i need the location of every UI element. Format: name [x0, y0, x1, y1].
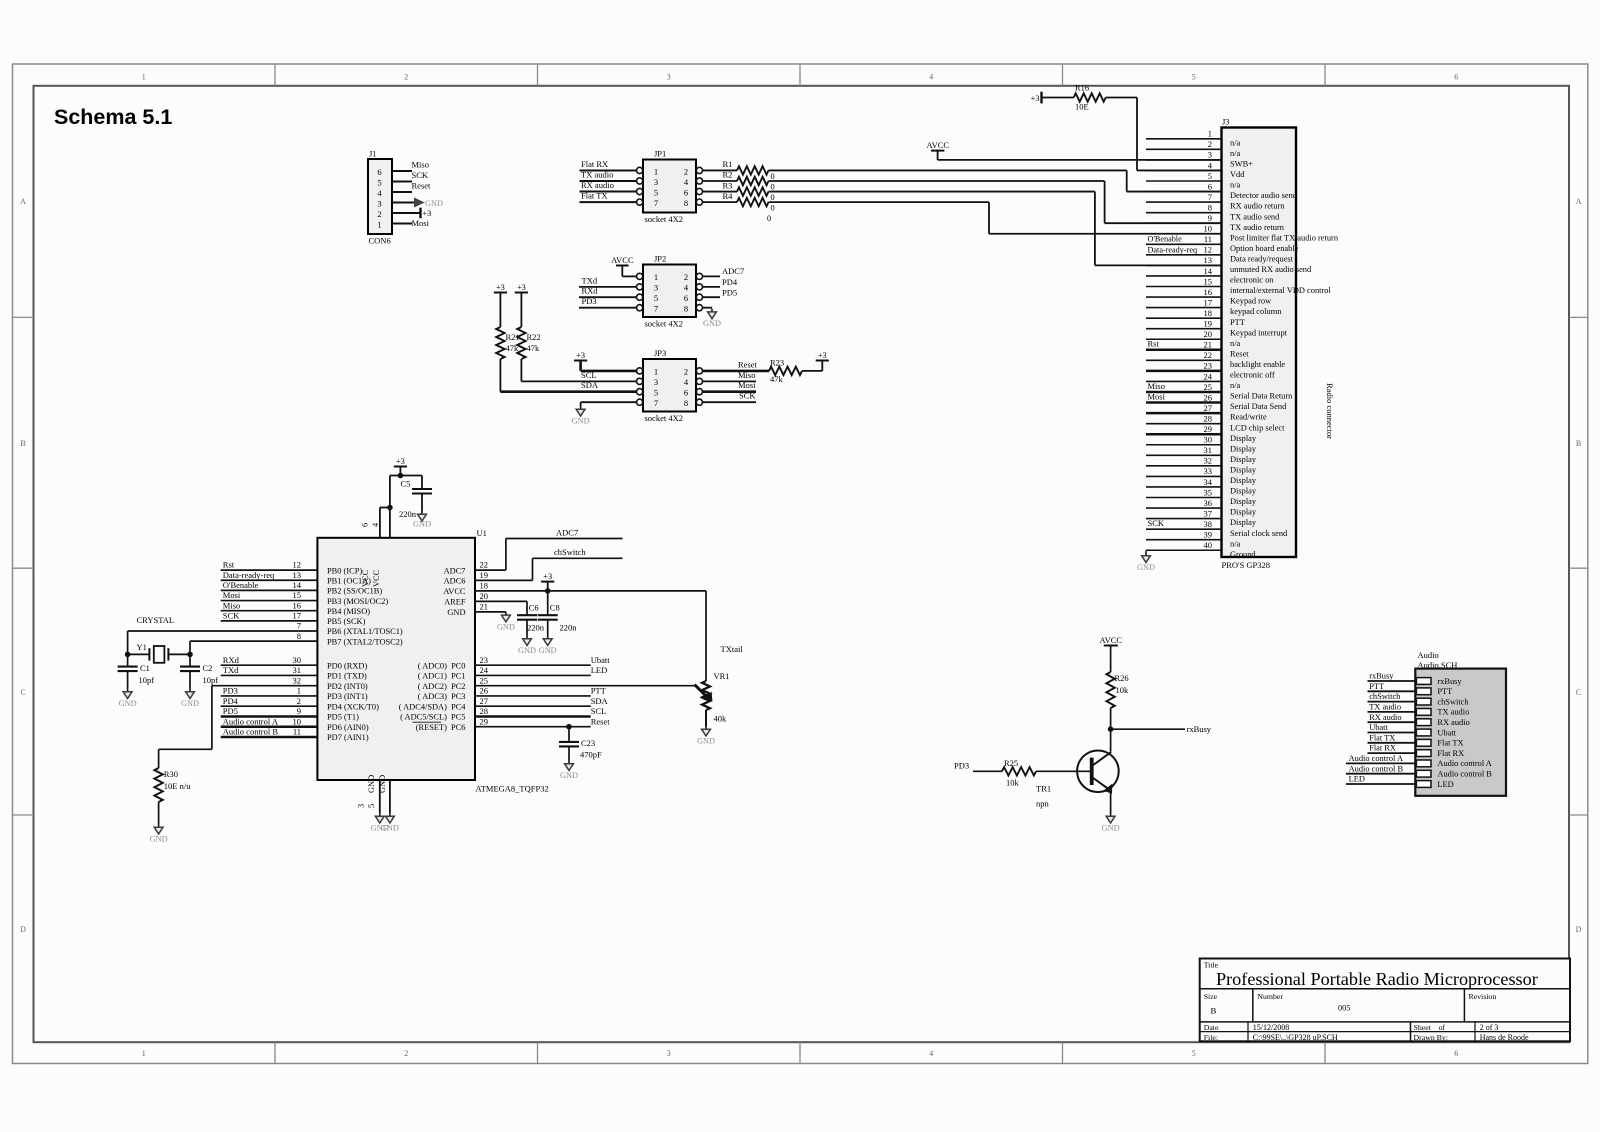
- svg-text:+3: +3: [818, 351, 827, 360]
- svg-text:23: 23: [1204, 361, 1213, 371]
- svg-text:Display: Display: [1230, 476, 1257, 485]
- svg-text:backlight enable: backlight enable: [1230, 360, 1285, 369]
- svg-text:Display: Display: [1230, 465, 1257, 474]
- svg-text:Ubatt: Ubatt: [1437, 728, 1456, 737]
- svg-text:SCL: SCL: [591, 706, 607, 716]
- connector J3 body: [1222, 128, 1297, 558]
- U1 GND pin 3 wire: [379, 780, 381, 813]
- socket JP1 body: [643, 160, 696, 213]
- svg-text:Display: Display: [1230, 434, 1257, 443]
- Audio sheet wires and outside labels: [1368, 680, 1416, 682]
- svg-text:1: 1: [654, 367, 658, 377]
- svg-text:electronic on: electronic on: [1230, 276, 1274, 285]
- JP3 right pin circles: [696, 368, 702, 374]
- svg-text:C1: C1: [140, 663, 150, 673]
- svg-text:PB7 (XTAL2/TOSC2): PB7 (XTAL2/TOSC2): [327, 637, 403, 646]
- resistor R16: [1043, 97, 1074, 99]
- svg-text:RX audio: RX audio: [1437, 718, 1469, 727]
- svg-text:PRO'S GP328: PRO'S GP328: [1222, 560, 1271, 570]
- svg-text:SCK: SCK: [739, 391, 756, 401]
- svg-text:Serial Data Send: Serial Data Send: [1230, 402, 1287, 411]
- power +3 for R16: [1040, 92, 1042, 104]
- svg-text:2: 2: [684, 367, 688, 377]
- svg-text:Radio connector: Radio connector: [1325, 383, 1335, 439]
- wire U1 pin 32 to R30: [212, 685, 318, 687]
- svg-text:C: C: [1576, 688, 1581, 697]
- svg-text:Display: Display: [1230, 508, 1257, 517]
- svg-text:31: 31: [1204, 445, 1213, 455]
- svg-text:GND: GND: [572, 417, 590, 426]
- svg-text:R30: R30: [164, 769, 178, 779]
- wire R23 to +3: [802, 370, 822, 372]
- U1 VCC pin 6 wire: [379, 508, 381, 538]
- svg-text:PD6 (AIN0): PD6 (AIN0): [327, 723, 369, 732]
- svg-text:Reset: Reset: [591, 716, 611, 726]
- svg-text:PB5 (SCK): PB5 (SCK): [327, 617, 366, 626]
- svg-text:7: 7: [1208, 192, 1212, 202]
- sheet symbol Audio body: [1415, 669, 1506, 796]
- svg-text:Audio control B: Audio control B: [1437, 770, 1492, 779]
- power +3 to JP3 pin 1: [574, 360, 587, 362]
- svg-text:Flat TX: Flat TX: [581, 191, 608, 201]
- U1 pin3 ground symbol: [379, 813, 381, 816]
- svg-text:Keypad interrupt: Keypad interrupt: [1230, 328, 1288, 337]
- svg-text:R1: R1: [723, 159, 733, 169]
- svg-text:Reset: Reset: [738, 359, 758, 369]
- ruler column ticks: [274, 64, 276, 86]
- svg-text:Vdd: Vdd: [1230, 170, 1245, 179]
- svg-text:SCL: SCL: [581, 370, 597, 380]
- svg-text:PD3: PD3: [582, 296, 597, 306]
- svg-text:PD3: PD3: [954, 760, 969, 770]
- svg-text:PB4 (MISO): PB4 (MISO): [327, 607, 370, 616]
- svg-text:3: 3: [667, 73, 671, 82]
- svg-text:7: 7: [654, 304, 658, 314]
- socket JP2 body: [643, 265, 696, 318]
- svg-text:R25: R25: [1004, 758, 1018, 768]
- svg-text:Flat RX: Flat RX: [1437, 749, 1464, 758]
- svg-text:22: 22: [1204, 350, 1213, 360]
- JP2 pin 4 wire PD4: [703, 286, 721, 288]
- J3 pin stubs and numbers: [1146, 138, 1222, 140]
- svg-text:31: 31: [293, 665, 302, 675]
- svg-text:15: 15: [1204, 276, 1213, 286]
- svg-text:33: 33: [1204, 466, 1213, 476]
- JP3 pin 2 wire Reset: [703, 370, 770, 373]
- capacitor C5: [412, 488, 432, 490]
- svg-text:internal/external VDD control: internal/external VDD control: [1230, 286, 1331, 295]
- svg-text:LED: LED: [1349, 775, 1365, 784]
- svg-text:n/a: n/a: [1230, 138, 1241, 147]
- svg-text:Flat RX: Flat RX: [581, 159, 608, 169]
- svg-text:5: 5: [654, 187, 658, 197]
- C5 ground: [421, 494, 423, 512]
- svg-text:AVCC: AVCC: [443, 587, 466, 596]
- svg-text:47k: 47k: [770, 374, 784, 384]
- svg-text:3: 3: [357, 804, 366, 808]
- svg-text:n/a: n/a: [1230, 149, 1241, 158]
- JP2 pin 8 wire to ground: [703, 307, 713, 309]
- svg-text:O'Benable: O'Benable: [1148, 235, 1183, 244]
- svg-text:unmuted RX audio send: unmuted RX audio send: [1230, 265, 1312, 274]
- svg-text:Option board enable: Option board enable: [1230, 244, 1299, 253]
- svg-text:17: 17: [293, 610, 302, 620]
- svg-text:Display: Display: [1230, 487, 1257, 496]
- svg-text:Flat TX: Flat TX: [1437, 739, 1463, 748]
- svg-text:Display: Display: [1230, 497, 1257, 506]
- svg-text:13: 13: [293, 570, 302, 580]
- svg-text:PB0 (ICP): PB0 (ICP): [327, 566, 362, 575]
- svg-text:+3: +3: [517, 283, 526, 292]
- JP2 wire RXd: [579, 296, 637, 298]
- svg-text:O'Benable: O'Benable: [223, 580, 259, 590]
- power +3 above U1: [394, 466, 407, 468]
- power +3 for R22: [515, 292, 528, 294]
- svg-text:220n: 220n: [399, 509, 417, 519]
- JP1 wire Flat RX: [580, 169, 637, 171]
- svg-text:220n: 220n: [527, 623, 545, 633]
- svg-text:PTT: PTT: [1369, 682, 1384, 691]
- svg-text:RX audio return: RX audio return: [1230, 202, 1285, 211]
- resistor R22: [520, 293, 522, 328]
- svg-text:6: 6: [377, 167, 381, 177]
- svg-text:4: 4: [929, 73, 933, 82]
- svg-text:14: 14: [293, 580, 302, 590]
- U1 PD pin wires and labels: [221, 664, 318, 666]
- svg-text:PB6 (XTAL1/TOSC1): PB6 (XTAL1/TOSC1): [327, 627, 403, 636]
- resistor R1: [703, 169, 738, 171]
- svg-text:18: 18: [480, 581, 489, 591]
- svg-text:C:\99SE\..\GP328 uP.SCH: C:\99SE\..\GP328 uP.SCH: [1253, 1033, 1338, 1042]
- svg-text:6: 6: [361, 523, 370, 527]
- svg-text:LED: LED: [591, 665, 608, 675]
- svg-text:ADC7: ADC7: [556, 527, 578, 537]
- svg-text:8: 8: [684, 304, 688, 314]
- svg-text:GND: GND: [539, 646, 557, 655]
- svg-text:( ADC5/SCL) PC5: ( ADC5/SCL) PC5: [400, 713, 465, 722]
- resistor R30: [154, 768, 162, 802]
- JP2 pin 6 wire PD5: [703, 296, 721, 298]
- svg-text:Ubatt: Ubatt: [1369, 723, 1388, 732]
- svg-text:Mosi: Mosi: [738, 380, 756, 390]
- power +3 for R21: [494, 292, 507, 294]
- JP2 right pin circles: [696, 273, 702, 279]
- svg-text:TR1: TR1: [1036, 784, 1051, 794]
- svg-text:2: 2: [297, 696, 301, 706]
- svg-text:GND: GND: [119, 699, 137, 708]
- svg-text:TX audio: TX audio: [581, 170, 613, 180]
- svg-text:GND: GND: [447, 608, 465, 617]
- svg-text:10pf: 10pf: [139, 675, 155, 685]
- svg-text:SCK: SCK: [223, 610, 240, 620]
- svg-text:Schema 5.1: Schema 5.1: [54, 105, 172, 129]
- junction rxBusy: [1108, 726, 1114, 732]
- svg-text:C2: C2: [203, 663, 213, 673]
- svg-text:C6: C6: [529, 603, 539, 613]
- svg-text:+3: +3: [1031, 94, 1040, 103]
- svg-text:npn: npn: [1036, 799, 1050, 809]
- svg-text:+3: +3: [576, 351, 585, 360]
- svg-text:TXd: TXd: [582, 275, 598, 285]
- svg-text:SWB+: SWB+: [1230, 160, 1253, 169]
- svg-text:6: 6: [1454, 73, 1458, 82]
- svg-text:10E n/u: 10E n/u: [164, 781, 191, 791]
- U1 GND pin 5 wire: [389, 780, 391, 813]
- svg-text:1: 1: [654, 166, 658, 176]
- svg-text:5: 5: [367, 804, 376, 808]
- svg-text:C5: C5: [401, 479, 411, 489]
- svg-text:10E: 10E: [1075, 102, 1089, 112]
- svg-text:22: 22: [480, 560, 489, 570]
- svg-text:Audio: Audio: [1418, 650, 1439, 660]
- svg-text:ADC7: ADC7: [444, 566, 466, 575]
- svg-text:Audio control A: Audio control A: [1349, 754, 1403, 763]
- svg-text:12: 12: [293, 560, 302, 570]
- JP1 wire TX audio: [580, 180, 637, 182]
- JP1 wire RX audio: [580, 191, 637, 193]
- svg-text:Flat RX: Flat RX: [1369, 744, 1396, 753]
- svg-text:( ADC4/SDA) PC4: ( ADC4/SDA) PC4: [399, 702, 467, 711]
- J1 pin 6 wire: [392, 170, 412, 172]
- svg-text:Y1: Y1: [137, 642, 147, 652]
- svg-text:GND: GND: [425, 199, 443, 208]
- junction +3 C5: [398, 473, 404, 479]
- svg-text:1: 1: [297, 686, 301, 696]
- junction AVCC +3: [545, 588, 551, 594]
- svg-text:R23: R23: [770, 357, 784, 367]
- svg-text:0: 0: [771, 193, 775, 202]
- svg-text:2: 2: [684, 272, 688, 282]
- svg-text:15/12/2008: 15/12/2008: [1253, 1023, 1289, 1032]
- U1 chSwitch wire: [475, 579, 533, 581]
- svg-text:Serial Data Return: Serial Data Return: [1230, 392, 1293, 401]
- svg-text:AVCC: AVCC: [927, 140, 950, 150]
- svg-text:470pF: 470pF: [580, 750, 602, 760]
- svg-text:6: 6: [684, 293, 688, 303]
- svg-text:30: 30: [293, 655, 302, 665]
- svg-text:15: 15: [293, 590, 302, 600]
- svg-text:+3: +3: [423, 209, 432, 218]
- U1 VCC pin 4 wire: [389, 476, 391, 538]
- svg-text:Audio control A: Audio control A: [223, 716, 279, 726]
- resistor R26: [1110, 646, 1112, 673]
- svg-text:29: 29: [1204, 424, 1213, 434]
- svg-text:VCC: VCC: [361, 569, 370, 587]
- svg-text:VCC: VCC: [372, 569, 381, 587]
- svg-text:Miso: Miso: [1148, 381, 1165, 391]
- svg-text:19: 19: [1204, 319, 1213, 329]
- svg-text:U1: U1: [477, 528, 487, 538]
- svg-text:GND: GND: [703, 319, 721, 328]
- svg-text:D: D: [1576, 925, 1582, 934]
- svg-text:32: 32: [293, 675, 302, 685]
- svg-text:16: 16: [1204, 287, 1213, 297]
- svg-text:TX audio send: TX audio send: [1230, 212, 1280, 221]
- svg-text:0: 0: [771, 183, 775, 192]
- svg-text:2: 2: [404, 1049, 408, 1058]
- svg-text:LCD chip select: LCD chip select: [1230, 423, 1285, 432]
- svg-text:10: 10: [293, 716, 302, 726]
- svg-text:2: 2: [404, 73, 408, 82]
- resistor R2: [703, 180, 738, 182]
- JP3 left pin circles: [637, 368, 643, 374]
- svg-text:D: D: [20, 925, 26, 934]
- J1 pin 3 wire: [392, 202, 414, 204]
- svg-text:Ubatt: Ubatt: [591, 655, 611, 665]
- svg-text:14: 14: [1204, 266, 1213, 276]
- JP1 left pin circles: [637, 167, 643, 173]
- svg-text:RX audio: RX audio: [581, 180, 614, 190]
- svg-text:+3: +3: [396, 457, 405, 466]
- svg-text:AVCC: AVCC: [611, 255, 634, 265]
- svg-text:30: 30: [1204, 435, 1213, 445]
- svg-text:Data-ready-req: Data-ready-req: [223, 570, 275, 580]
- svg-text:chSwitch: chSwitch: [554, 547, 586, 557]
- svg-text:26: 26: [1204, 392, 1213, 402]
- svg-text:13: 13: [1204, 255, 1213, 265]
- svg-text:+3: +3: [543, 572, 552, 581]
- wire R3 to J3 pin 13: [769, 191, 1095, 193]
- svg-text:PD0 (RXD): PD0 (RXD): [327, 661, 367, 670]
- resistor R4: [703, 201, 738, 203]
- svg-text:Professional Portable Radio Mi: Professional Portable Radio Microprocess…: [1216, 969, 1538, 989]
- svg-text:PD4 (XCK/T0): PD4 (XCK/T0): [327, 702, 379, 711]
- wire R2 to J3 pin 9: [769, 180, 1105, 182]
- svg-text:10: 10: [1204, 224, 1213, 234]
- junction crystal left: [125, 652, 131, 658]
- svg-text:Drawn By:: Drawn By:: [1414, 1033, 1448, 1042]
- svg-text:GND: GND: [1102, 824, 1120, 833]
- svg-text:8: 8: [297, 631, 301, 641]
- svg-text:n/a: n/a: [1230, 539, 1241, 548]
- svg-text:10pf: 10pf: [203, 675, 219, 685]
- svg-text:TX audio return: TX audio return: [1230, 223, 1285, 232]
- svg-text:C: C: [20, 688, 25, 697]
- svg-text:7: 7: [654, 198, 658, 208]
- junction C23: [566, 724, 572, 730]
- svg-text:24: 24: [1204, 371, 1213, 381]
- svg-text:005: 005: [1338, 1004, 1350, 1013]
- svg-text:ATMEGA8_TQFP32: ATMEGA8_TQFP32: [476, 784, 549, 794]
- svg-text:3: 3: [654, 283, 658, 293]
- svg-text:C8: C8: [550, 603, 560, 613]
- svg-text:TX audio: TX audio: [1369, 703, 1401, 712]
- title block inner lines: [1200, 988, 1570, 990]
- svg-text:CON6: CON6: [369, 236, 391, 246]
- junction VCC: [387, 505, 393, 511]
- svg-text:GND: GND: [181, 699, 199, 708]
- wire R21 to SDA: [499, 359, 501, 392]
- J1 pin 1 wire: [392, 223, 412, 225]
- svg-text:TXtail: TXtail: [721, 644, 744, 654]
- svg-text:Audio control A: Audio control A: [1437, 759, 1491, 768]
- svg-text:6: 6: [684, 187, 688, 197]
- svg-text:Display: Display: [1230, 444, 1257, 453]
- svg-text:n/a: n/a: [1230, 181, 1241, 190]
- svg-text:R4: R4: [723, 191, 734, 201]
- svg-text:8: 8: [684, 198, 688, 208]
- svg-text:PD4: PD4: [223, 696, 239, 706]
- svg-text:32: 32: [1204, 456, 1213, 466]
- svg-text:Read/write: Read/write: [1230, 413, 1267, 422]
- svg-text:socket 4X2: socket 4X2: [645, 214, 683, 224]
- svg-text:Mosi: Mosi: [412, 218, 430, 228]
- svg-text:Mosi: Mosi: [1148, 391, 1166, 401]
- svg-text:J1: J1: [369, 149, 377, 159]
- svg-text:11: 11: [293, 727, 301, 737]
- svg-text:2: 2: [1208, 139, 1212, 149]
- svg-text:( ADC2) PC2: ( ADC2) PC2: [418, 682, 466, 691]
- svg-text:R22: R22: [527, 332, 541, 342]
- svg-text:Display: Display: [1230, 455, 1257, 464]
- svg-text:28: 28: [480, 706, 489, 716]
- svg-text:3: 3: [654, 177, 658, 187]
- svg-text:40: 40: [1204, 540, 1213, 550]
- svg-text:Detector audio send: Detector audio send: [1230, 191, 1298, 200]
- svg-text:PD3 (INT1): PD3 (INT1): [327, 692, 368, 701]
- svg-text:6: 6: [1208, 181, 1212, 191]
- svg-text:220n: 220n: [560, 623, 578, 633]
- svg-text:7: 7: [297, 621, 301, 631]
- wire rxBusy: [1111, 728, 1185, 730]
- wire R26 to collector junction: [1110, 708, 1112, 752]
- power +3 on AVCC line: [541, 581, 554, 583]
- svg-text:+3: +3: [496, 283, 505, 292]
- svg-text:GND: GND: [497, 622, 515, 631]
- U1 GND pin 21 wire: [475, 611, 506, 613]
- svg-text:PTT: PTT: [1437, 687, 1452, 696]
- capacitor C6 on AREF: [526, 601, 528, 615]
- svg-text:47k: 47k: [527, 343, 541, 353]
- U1 AVCC wire to VR1: [475, 590, 706, 592]
- svg-text:( ADC1) PC1: ( ADC1) PC1: [418, 672, 466, 681]
- svg-text:R26: R26: [1115, 673, 1129, 683]
- svg-text:Miso: Miso: [738, 370, 755, 380]
- svg-text:electronic off: electronic off: [1230, 371, 1275, 380]
- svg-text:RX audio: RX audio: [1369, 713, 1401, 722]
- svg-text:VR1: VR1: [714, 671, 730, 681]
- svg-text:PD4: PD4: [722, 277, 738, 287]
- svg-text:19: 19: [480, 570, 489, 580]
- svg-text:( ADC0) PC0: ( ADC0) PC0: [418, 661, 466, 670]
- JP3 pin 8 wire SCK: [703, 401, 757, 403]
- svg-text:GND: GND: [560, 771, 578, 780]
- svg-text:B: B: [1211, 1006, 1217, 1016]
- svg-text:AREF: AREF: [444, 598, 466, 607]
- svg-text:27: 27: [1204, 403, 1213, 413]
- svg-text:GND: GND: [518, 646, 536, 655]
- svg-text:Display: Display: [1230, 518, 1257, 527]
- R30 ground: [158, 802, 160, 824]
- svg-text:CRYSTAL: CRYSTAL: [137, 615, 175, 625]
- svg-text:0: 0: [771, 204, 775, 213]
- connector J1 body: [368, 159, 392, 234]
- TR1 emitter to ground: [1110, 791, 1112, 813]
- wire PD3 to R25: [973, 770, 1002, 772]
- svg-text:Data ready/request: Data ready/request: [1230, 254, 1294, 263]
- J1 pin 2 wire: [392, 212, 421, 214]
- svg-text:Rst: Rst: [223, 560, 235, 570]
- svg-text:25: 25: [1204, 382, 1213, 392]
- svg-text:socket 4X2: socket 4X2: [645, 413, 683, 423]
- JP3 wire SDA: [500, 390, 636, 393]
- svg-text:26: 26: [480, 686, 489, 696]
- svg-text:2: 2: [684, 166, 688, 176]
- JP1 right pin circles: [696, 167, 702, 173]
- svg-text:6: 6: [684, 388, 688, 398]
- svg-text:28: 28: [1204, 413, 1213, 423]
- svg-text:GND: GND: [150, 835, 168, 844]
